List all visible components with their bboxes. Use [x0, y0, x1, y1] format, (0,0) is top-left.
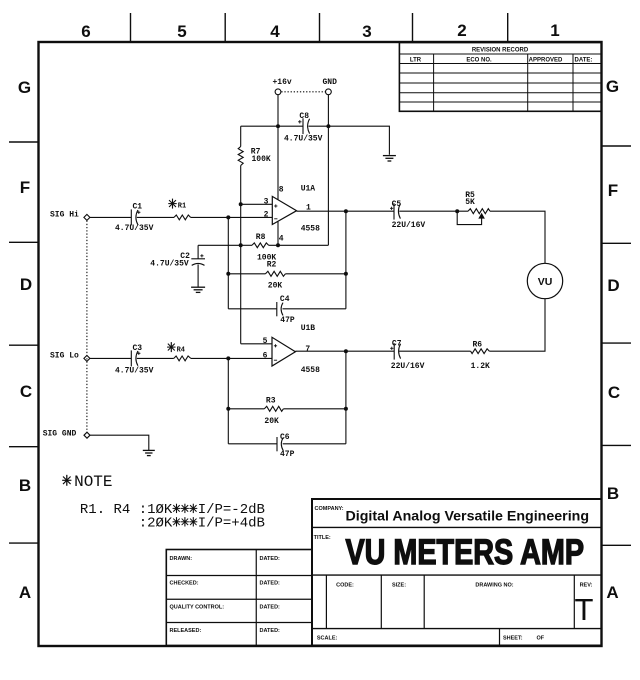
node junction GND rail	[326, 124, 330, 128]
star mark R1	[168, 199, 176, 209]
svg-text:C8: C8	[299, 112, 309, 121]
svg-text:GND: GND	[322, 78, 337, 87]
left tick D/C	[9, 344, 39, 346]
svg-text:C6: C6	[280, 433, 290, 442]
svg-text:R3: R3	[266, 397, 276, 406]
wire C1 to R1	[137, 216, 174, 218]
svg-text:B: B	[607, 484, 619, 503]
wire C5 to R5	[399, 210, 468, 212]
left tick B/A	[9, 542, 39, 544]
node junction pin4/gnd rail	[276, 243, 280, 247]
svg-text:U1B: U1B	[301, 324, 316, 333]
top tick 3/2	[412, 13, 414, 42]
svg-text:4.7U/35V: 4.7U/35V	[115, 224, 154, 233]
svg-text:47P: 47P	[280, 450, 295, 459]
svg-text:6: 6	[263, 351, 268, 360]
svg-text:SCALE:: SCALE:	[317, 636, 338, 642]
revision record table	[399, 43, 601, 112]
title block	[312, 499, 602, 646]
svg-text:R2: R2	[267, 260, 277, 269]
svg-text:4: 4	[279, 235, 284, 244]
resistor R3	[228, 406, 346, 411]
svg-text:1: 1	[306, 204, 311, 213]
svg-text:DATE:: DATE:	[575, 58, 593, 64]
svg-text:4: 4	[270, 22, 280, 41]
+16V terminal	[275, 89, 281, 95]
op-amp U1A	[272, 196, 296, 224]
svg-text:DATED:: DATED:	[260, 605, 281, 611]
svg-text:DATED:: DATED:	[260, 628, 281, 634]
svg-text:R6: R6	[473, 340, 483, 349]
capacitor C1	[131, 209, 140, 225]
svg-text:+16v: +16v	[272, 78, 291, 87]
resistor R4	[174, 356, 191, 361]
ground symbol C2	[191, 287, 205, 292]
svg-text:C7: C7	[392, 339, 402, 348]
capacitor C8	[298, 118, 310, 134]
svg-text:REVISION RECORD: REVISION RECORD	[472, 48, 529, 54]
svg-text:SIG Hi: SIG Hi	[50, 210, 79, 219]
svg-text:R1: R1	[178, 203, 186, 211]
wire R1 to pin 2	[191, 216, 273, 218]
svg-text:U1A: U1A	[301, 185, 316, 194]
svg-text:20K: 20K	[264, 417, 279, 426]
node junction output U1A	[344, 209, 348, 213]
svg-text:COMPANY:: COMPANY:	[315, 506, 344, 512]
node junction bias/pin3	[239, 202, 243, 206]
svg-text:DRAWING NO:: DRAWING NO:	[475, 583, 513, 589]
top tick 6/5	[130, 13, 132, 42]
svg-text:SHEET:: SHEET:	[503, 636, 523, 642]
wire pin2 node vertical	[227, 217, 229, 308]
node junction pin2/R2	[226, 272, 230, 276]
svg-text:REV:: REV:	[580, 583, 593, 589]
svg-text:F: F	[608, 181, 618, 200]
node SIG Lo terminal	[84, 355, 90, 361]
dotted wire between +16V and GND terminals	[281, 91, 325, 93]
svg-text:TITLE:: TITLE:	[314, 535, 331, 541]
note line 1 star 3	[189, 504, 197, 513]
svg-text:DRAWN:: DRAWN:	[170, 556, 193, 562]
wire C3 to R4	[137, 357, 174, 359]
svg-text:D: D	[607, 276, 619, 295]
wire pin 5	[241, 343, 272, 345]
svg-text:2: 2	[264, 210, 269, 219]
svg-text:SIG GND: SIG GND	[43, 430, 77, 439]
svg-text:A: A	[606, 583, 618, 602]
svg-text:LTR: LTR	[410, 58, 422, 64]
svg-text:OF: OF	[537, 636, 545, 642]
svg-text:8: 8	[279, 186, 284, 195]
wire pin 4	[277, 222, 279, 246]
svg-text:G: G	[606, 77, 619, 96]
svg-text:R8: R8	[256, 233, 266, 242]
ground symbol SIG GND	[143, 450, 155, 455]
capacitor C7	[390, 343, 400, 359]
capacitor C6	[277, 437, 283, 451]
wire +16V rail to C8	[241, 125, 303, 127]
wire C8 to GND vertical and ground drop	[309, 126, 390, 155]
svg-text:DATED:: DATED:	[260, 581, 281, 587]
svg-text:C: C	[20, 382, 32, 401]
left tick F/D	[9, 241, 39, 243]
wire R5 to VU	[490, 211, 545, 263]
border frame	[39, 42, 602, 646]
svg-text:1.2K: 1.2K	[471, 362, 490, 371]
svg-text:4.7U/35V: 4.7U/35V	[150, 259, 189, 268]
wire C4 left	[228, 308, 276, 310]
svg-text:D: D	[20, 275, 32, 294]
note star mark	[62, 475, 71, 486]
node junction output U1B	[344, 349, 348, 353]
node SIG GND terminal	[84, 432, 90, 438]
wire SIG Lo to C3	[90, 357, 131, 359]
top tick 2/1	[507, 13, 509, 42]
svg-text:4558: 4558	[301, 366, 320, 375]
resistor R8	[241, 243, 329, 248]
node junction R5 left	[455, 209, 459, 213]
svg-text:DATED:: DATED:	[260, 556, 281, 562]
svg-text:B: B	[19, 476, 31, 495]
ground symbol main	[383, 156, 396, 161]
capacitor C2	[191, 245, 205, 287]
resistor R6	[471, 349, 490, 354]
svg-text:QUALITY CONTROL:: QUALITY CONTROL:	[170, 605, 225, 611]
wire C2 top	[198, 244, 241, 246]
op-amp U1B	[272, 337, 295, 366]
svg-text:ECO NO.: ECO NO.	[466, 58, 492, 64]
svg-text:20K: 20K	[268, 282, 283, 291]
node junction pin2	[226, 215, 230, 219]
wire +16V vertical to pin 8	[277, 95, 279, 200]
node SIG Hi terminal	[84, 214, 90, 220]
node junction +16V rail	[276, 124, 280, 128]
svg-text:47P: 47P	[280, 316, 295, 325]
svg-text:A: A	[19, 583, 31, 602]
svg-text:I/P=+4dB: I/P=+4dB	[198, 516, 265, 532]
signoff table	[166, 550, 312, 646]
svg-text:5: 5	[177, 22, 186, 41]
wire VU down to R6	[489, 299, 545, 352]
right tick G/F	[602, 145, 632, 147]
svg-text:4558: 4558	[301, 225, 320, 234]
svg-text:3: 3	[264, 198, 269, 207]
VU meter M1	[527, 263, 562, 298]
svg-text:5K: 5K	[465, 198, 475, 207]
top tick 5/4	[224, 13, 226, 42]
wire pin 3	[241, 203, 273, 205]
right tick F/D	[602, 242, 632, 244]
svg-text:100K: 100K	[252, 155, 271, 164]
wire pin6 node vertical	[227, 358, 229, 443]
wire GND vertical to pin4 rail	[327, 95, 329, 246]
svg-text:C5: C5	[392, 200, 402, 209]
capacitor C5	[390, 203, 400, 219]
svg-text:T: T	[575, 592, 594, 627]
svg-text:5: 5	[263, 337, 268, 346]
wire bias vertical R7 to pin5	[240, 166, 242, 344]
wire C7 to U1B output	[295, 350, 394, 352]
svg-text:RELEASED:: RELEASED:	[170, 628, 202, 634]
svg-text:SIZE:: SIZE:	[392, 583, 406, 589]
svg-text:7: 7	[305, 345, 310, 354]
svg-text:3: 3	[362, 22, 371, 41]
capacitor C3	[131, 350, 140, 366]
svg-text:1: 1	[550, 21, 559, 40]
svg-text:SIG Lo: SIG Lo	[50, 351, 79, 360]
svg-text:Digital Analog Versatile Engin: Digital Analog Versatile Engineering	[346, 509, 590, 525]
svg-text:VU: VU	[538, 276, 553, 288]
top tick 4/3	[319, 13, 321, 42]
resistor R1	[174, 215, 191, 220]
svg-text:CODE:: CODE:	[336, 583, 354, 589]
left tick C/B	[9, 446, 39, 448]
resistor R7	[238, 126, 243, 165]
wire output feedback vertical	[345, 211, 347, 309]
wire U1B feedback vertical	[345, 351, 347, 444]
svg-text:6: 6	[81, 22, 90, 41]
wire SIG GND to ground	[90, 435, 149, 450]
svg-text:C4: C4	[280, 295, 290, 304]
resistor R2	[228, 271, 346, 276]
svg-text:4.7U/35V: 4.7U/35V	[115, 367, 154, 376]
svg-text:22U/16V: 22U/16V	[391, 362, 425, 371]
right tick C/B	[602, 444, 632, 446]
wire R6 to C7	[399, 350, 471, 352]
dotted bus SIG Hi to SIG GND	[86, 221, 88, 432]
svg-text::2ØK: :2ØK	[139, 516, 173, 532]
svg-text:G: G	[18, 78, 31, 97]
capacitor C4	[277, 302, 283, 316]
wire C4 right	[283, 308, 346, 310]
right tick D/C	[602, 342, 632, 344]
svg-text:2: 2	[457, 21, 466, 40]
wire U1A output	[297, 210, 394, 212]
svg-text:VU METERS AMP: VU METERS AMP	[346, 533, 585, 572]
GND terminal	[326, 89, 332, 95]
node junction R2/output	[344, 272, 348, 276]
node junction pin6	[226, 356, 230, 360]
node junction R3/output	[344, 407, 348, 411]
wire pin 6 from R4	[191, 357, 272, 359]
svg-text:F: F	[20, 178, 30, 197]
potentiometer R5	[457, 209, 490, 225]
star mark R4	[167, 342, 175, 352]
wire SIG Hi to C1	[90, 216, 131, 218]
svg-text:22U/16V: 22U/16V	[392, 221, 426, 230]
note line 2 star 3	[189, 517, 197, 526]
svg-text:C3: C3	[133, 344, 143, 353]
left tick G/F	[9, 141, 39, 143]
svg-text:NOTE: NOTE	[74, 473, 112, 491]
svg-text:C: C	[608, 383, 620, 402]
node junction bias/R8	[239, 243, 243, 247]
note line 1 star 2	[181, 504, 189, 513]
wire C6 left	[228, 443, 276, 445]
wire C6 right	[283, 443, 346, 445]
right tick B/A	[602, 544, 632, 546]
svg-text:R4: R4	[177, 347, 185, 355]
node junction pin6/R3	[226, 407, 230, 411]
note line 2 star 1	[173, 517, 181, 526]
note line 2 star 2	[181, 517, 189, 526]
svg-text:C1: C1	[133, 203, 143, 212]
svg-text:4.7U/35V: 4.7U/35V	[284, 135, 323, 144]
svg-text:CHECKED:: CHECKED:	[170, 581, 199, 587]
svg-text:APPROVED: APPROVED	[529, 58, 563, 64]
note line 1 star 1	[173, 504, 181, 513]
